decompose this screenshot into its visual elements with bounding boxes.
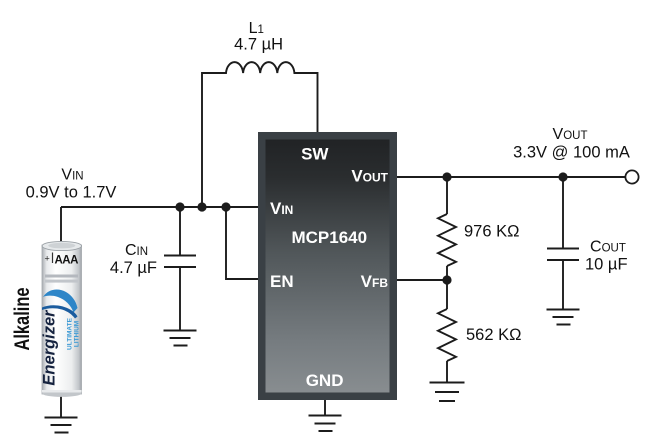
svg-text:10 µF: 10 µF <box>585 256 628 274</box>
svg-text:L1: L1 <box>249 20 264 37</box>
svg-text:MCP1640: MCP1640 <box>291 228 367 247</box>
svg-text:GND: GND <box>306 371 344 390</box>
svg-text:0.9V to 1.7V: 0.9V to 1.7V <box>26 184 117 202</box>
svg-text:SW: SW <box>301 145 329 164</box>
svg-text:LITHIUM: LITHIUM <box>74 321 81 347</box>
svg-text:976 KΩ: 976 KΩ <box>464 223 519 241</box>
svg-text:AAA: AAA <box>55 255 79 267</box>
svg-text:+: + <box>45 254 50 264</box>
svg-text:VOUT: VOUT <box>553 126 588 143</box>
svg-text:COUT: COUT <box>590 239 626 256</box>
svg-text:3.3V @ 100 mA: 3.3V @ 100 mA <box>513 144 630 162</box>
svg-text:CIN: CIN <box>125 242 148 259</box>
svg-text:VIN: VIN <box>61 167 83 184</box>
svg-text:Energizer: Energizer <box>41 309 59 386</box>
svg-text:ULTIMATE: ULTIMATE <box>67 317 74 350</box>
svg-text:Alkaline: Alkaline <box>11 288 34 351</box>
svg-text:EN: EN <box>270 272 294 291</box>
svg-text:4.7 µF: 4.7 µF <box>110 259 157 277</box>
svg-text:4.7 µH: 4.7 µH <box>234 36 283 54</box>
svg-text:562 KΩ: 562 KΩ <box>466 326 521 344</box>
